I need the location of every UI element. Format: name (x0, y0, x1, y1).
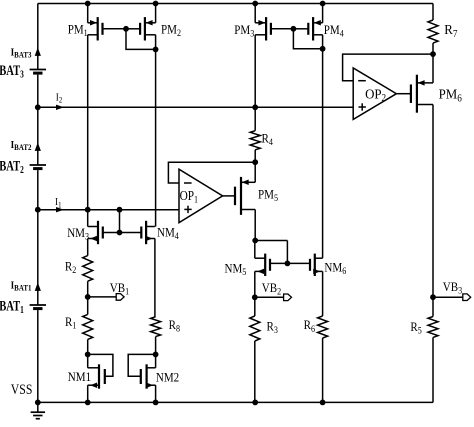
svg-text:NM1: NM1 (68, 369, 91, 384)
svg-text:NM2: NM2 (156, 370, 179, 385)
svg-text:VSS: VSS (11, 381, 33, 397)
